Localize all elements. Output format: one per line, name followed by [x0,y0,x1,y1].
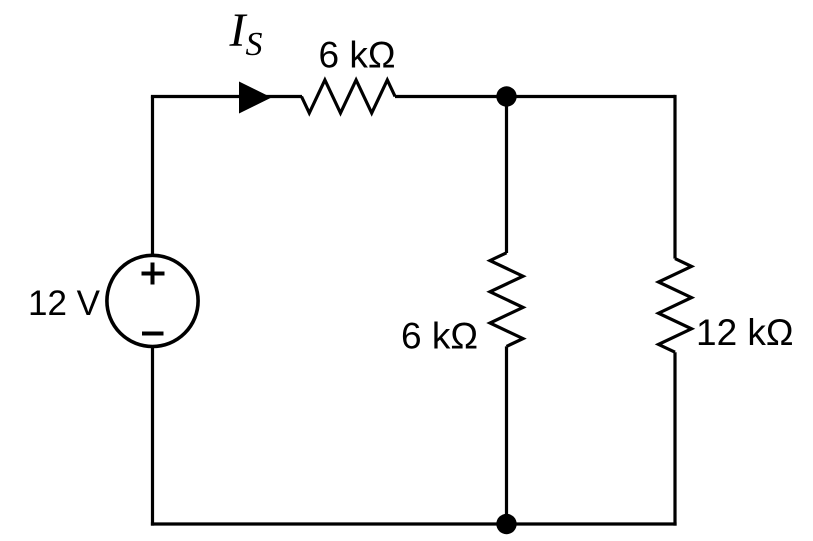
voltage source V1 (circle) [107,255,198,346]
wire: top horizontal, R1 to top node [395,95,507,98]
svg-text:12 kΩ: 12 kΩ [696,312,794,353]
wire: left vertical, source circle top to top-left corner [151,97,154,256]
resistor R3 12 kOhm (right vertical) [659,259,692,353]
voltage source plus sign [142,263,165,285]
wire: right vertical, top-right corner to resistor R3 [673,95,676,259]
resistor R1 6 kOhm (top horizontal) [302,80,396,113]
resistor R2 6 kOhm (middle vertical) [490,253,523,347]
wire: top horizontal, node to top-right corner [507,95,676,98]
node B (bottom junction dot) [496,514,516,534]
svg-text:IS: IS [229,4,263,63]
node A (top junction dot) [496,86,516,106]
svg-text:12 V: 12 V [28,284,101,323]
svg-text:6 kΩ: 6 kΩ [401,316,478,357]
wire: top horizontal, left corner to resistor R1 [151,95,302,98]
voltage source minus sign [142,332,164,336]
current arrow IS [239,82,272,114]
svg-text:6 kΩ: 6 kΩ [319,35,396,76]
wire: left vertical, source circle bottom to bottom-left corner [151,348,154,526]
wire: bottom horizontal, bottom-left corner to bottom node [151,522,507,525]
wire: bottom horizontal, node to bottom-right corner [507,522,677,525]
wire: middle vertical, top node to resistor R2 [505,97,508,254]
wire: right vertical, R3 to bottom-right corner [673,352,676,525]
wire: middle vertical, R2 to bottom node [505,346,508,524]
